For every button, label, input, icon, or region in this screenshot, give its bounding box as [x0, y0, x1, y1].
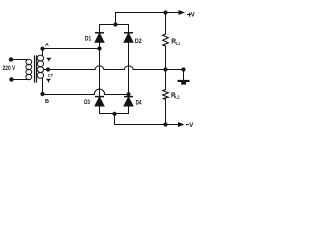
svg-text:L2: L2 — [175, 95, 180, 100]
svg-text:CT: CT — [48, 73, 53, 78]
svg-text:V: V — [189, 123, 193, 129]
svg-text:A: A — [45, 42, 49, 48]
svg-text:D2: D2 — [135, 39, 142, 45]
svg-text:V: V — [191, 12, 195, 18]
svg-text:D4: D4 — [136, 101, 142, 107]
svg-text:B: B — [45, 99, 49, 105]
svg-text:220 V: 220 V — [3, 65, 16, 72]
svg-text:D1: D1 — [85, 37, 92, 43]
svg-text:L1: L1 — [176, 41, 180, 46]
svg-text:D3: D3 — [84, 100, 90, 106]
